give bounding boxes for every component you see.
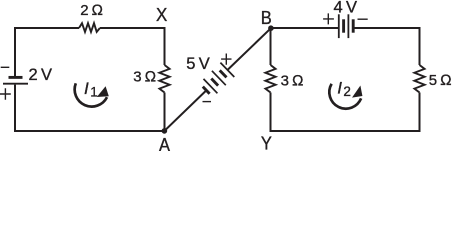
- battery 5V negative plate (short, cell 2): [211, 79, 218, 86]
- svg-text:2 V: 2 V: [29, 66, 53, 84]
- node A junction dot: [162, 128, 168, 134]
- svg-text:5 V: 5 V: [186, 55, 210, 73]
- wire right-loop top (B to 4V battery): [271, 27, 339, 29]
- wire left-loop right upper (X down to 3-ohm): [164, 27, 166, 65]
- svg-text:2 Ω: 2 Ω: [80, 2, 103, 19]
- svg-text:3 Ω: 3 Ω: [133, 68, 156, 85]
- wire right-loop top (4V battery to right corner): [353, 27, 419, 29]
- battery 2V negative plate (short): [9, 76, 23, 79]
- wire diagonal 5V battery to B: [227, 28, 271, 70]
- svg-text:A: A: [159, 135, 170, 151]
- battery 5V negative plate (short, cell 3): [220, 70, 227, 77]
- wire right-loop left upper (B down to 3-ohm): [270, 27, 272, 65]
- battery 4V negative plate (short): [342, 19, 345, 32]
- svg-text:Y: Y: [261, 134, 272, 152]
- battery 4V outer negative plate (short, right): [352, 19, 355, 32]
- battery 5V positive plate (long, cell 3): [220, 63, 234, 77]
- wire left-loop left lower (2V battery to bottom): [14, 85, 16, 132]
- svg-text:X: X: [156, 5, 167, 25]
- wire left-loop right lower (3-ohm down to node A): [164, 93, 166, 133]
- svg-text:B: B: [261, 8, 272, 28]
- battery 2V minus sign: [1, 66, 10, 68]
- battery 4V plus sign: [323, 13, 334, 24]
- wire left-loop top (left of 2-ohm): [15, 27, 79, 29]
- battery 4V minus sign: [358, 18, 368, 20]
- resistor R 2-ohm: [79, 23, 100, 32]
- battery 2V positive plate (long): [3, 83, 28, 85]
- resistor 3-ohm (right loop): [265, 65, 275, 93]
- wire left-loop bottom: [15, 130, 165, 132]
- svg-text:1: 1: [90, 85, 98, 100]
- wire right-loop left lower (3-ohm to Y): [270, 93, 272, 133]
- mesh current I2 arrow arc: [329, 84, 361, 109]
- wire left-loop left upper (to 2V battery): [14, 27, 16, 76]
- battery 4V positive plate (long, left): [338, 14, 340, 38]
- battery 5V positive plate (long, cell 1): [204, 79, 218, 93]
- resistor 5-ohm: [414, 65, 424, 93]
- mesh current I2 arrowhead: [352, 86, 362, 98]
- svg-text:I: I: [84, 79, 89, 98]
- svg-text:5 Ω: 5 Ω: [429, 72, 452, 89]
- wire right-loop bottom (Y to right corner): [271, 130, 420, 132]
- battery 4V inner positive plate (long): [347, 14, 349, 38]
- svg-text:2: 2: [343, 84, 351, 99]
- battery 2V plus sign: [0, 88, 11, 100]
- battery 5V positive plate (long, cell 2): [212, 71, 226, 85]
- battery 5V minus sign: [203, 101, 212, 103]
- wire right-loop right upper: [419, 27, 421, 65]
- resistor 3-ohm (left loop): [159, 65, 169, 93]
- node B junction dot: [268, 25, 274, 31]
- wire right-loop right lower: [419, 93, 421, 133]
- mesh current I1 arrow arc: [75, 83, 107, 106]
- svg-text:4 V: 4 V: [334, 0, 358, 17]
- svg-text:3 Ω: 3 Ω: [281, 73, 304, 90]
- battery 5V negative plate (short, cell 1): [203, 87, 210, 94]
- battery 5V plus sign: [221, 54, 231, 65]
- wire left-loop top (right of 2-ohm, to X corner): [100, 27, 165, 29]
- svg-text:I: I: [337, 79, 342, 98]
- mesh current I1 arrowhead: [97, 86, 109, 97]
- wire diagonal A to 5V battery: [164, 91, 206, 131]
